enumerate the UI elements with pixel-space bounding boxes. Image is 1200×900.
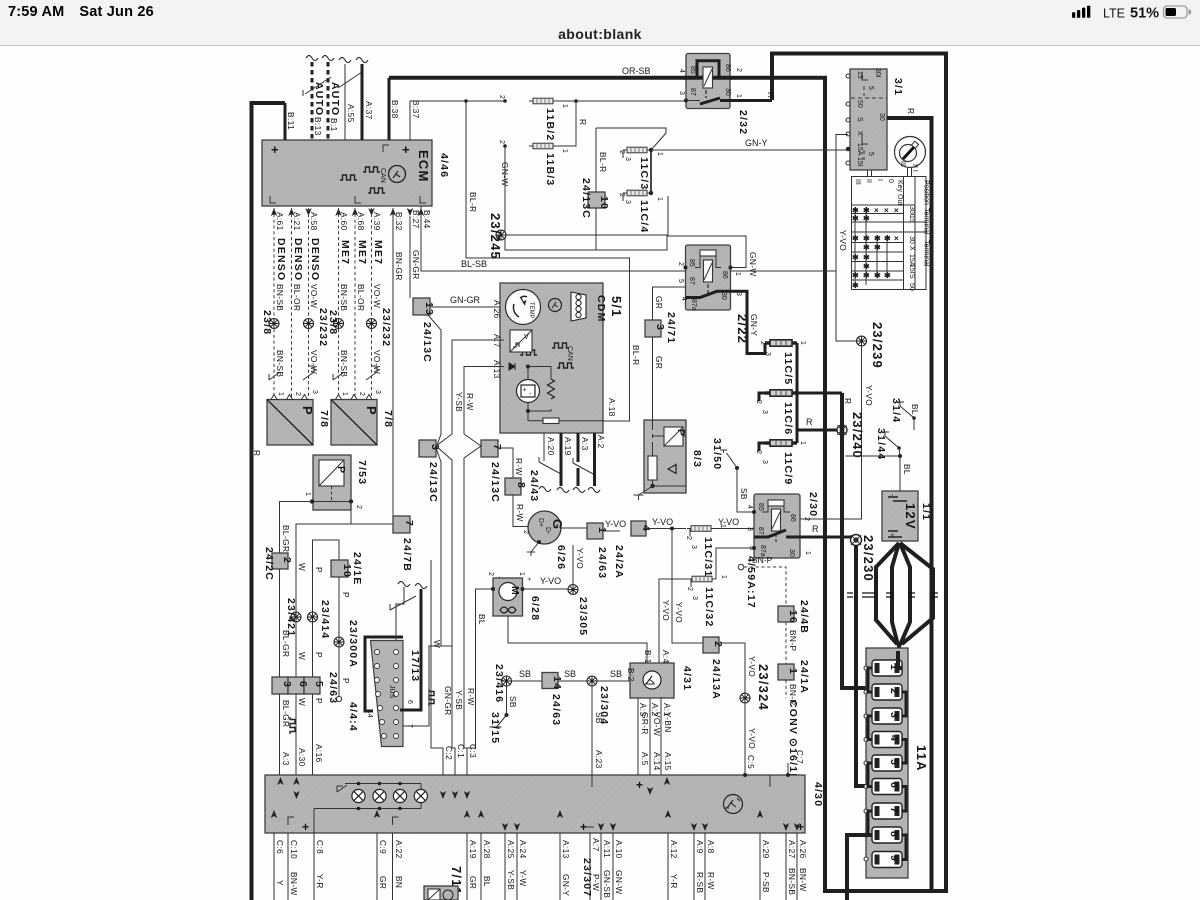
switch 31/44: [875, 418, 914, 460]
svg-text:B:13: B:13: [313, 117, 323, 136]
wire A:37 bold: [356, 58, 374, 141]
svg-text:50: 50: [856, 100, 863, 108]
svg-text:BN-W: BN-W: [289, 872, 299, 896]
connector 24/2A pin 4: [613, 517, 739, 579]
wire A:13 R-W: [464, 367, 504, 435]
svg-text:GR-R: GR-R: [640, 712, 650, 735]
wire BL-GR 7/53 pin1 to 24/2C: [280, 502, 313, 554]
svg-text:ECM: ECM: [416, 150, 431, 183]
splice 23/304: [587, 669, 630, 775]
svg-text:A:19: A:19: [468, 840, 478, 859]
svg-text:GN-W: GN-W: [614, 870, 624, 895]
svg-text:30I: 30I: [874, 68, 881, 78]
svg-text:5: 5: [867, 152, 874, 156]
svg-text:24/13C: 24/13C: [427, 462, 439, 503]
svg-text:86: 86: [721, 271, 728, 279]
connector 24/2C pin 2: [263, 547, 293, 581]
fuse 11C/3: [618, 147, 663, 190]
svg-text:Y-SB: Y-SB: [454, 392, 464, 412]
internal wiring of 5/1: [528, 367, 551, 422]
svg-text:3: 3: [690, 545, 697, 549]
CDM icon in 5/1: [571, 292, 586, 321]
fuse 11C/6 bold: [755, 390, 806, 436]
svg-text:CAN: CAN: [566, 346, 573, 361]
harness connector ticks: [847, 593, 938, 597]
svg-text:6/28: 6/28: [529, 596, 541, 621]
svg-text:Y-VO: Y-VO: [838, 230, 848, 251]
svg-text:BL-R: BL-R: [468, 192, 478, 213]
svg-text:A:7: A:7: [591, 838, 601, 852]
svg-text:A:16: A:16: [314, 744, 324, 763]
wire BL battery to switches: [845, 404, 920, 491]
fuel gauge sender 4/31: [626, 650, 693, 717]
svg-text:S: S: [856, 117, 863, 122]
svg-text:11C/4: 11C/4: [638, 200, 650, 233]
svg-text:A:25: A:25: [506, 840, 516, 859]
ground 23/239: [857, 322, 886, 369]
battery telltale in 5/1: [517, 380, 540, 403]
svg-text:G: G: [550, 519, 565, 530]
wire frame right inner bold from ignition 30: [887, 118, 932, 893]
svg-text:B:37: B:37: [411, 100, 421, 119]
svg-text:A:58: A:58: [309, 212, 319, 231]
svg-text:+: +: [525, 577, 532, 581]
wire Y-SB down to panel C:1: [452, 640, 464, 775]
ECM control module 4/46: [262, 140, 450, 206]
svg-text:BL-R: BL-R: [598, 152, 608, 173]
wire B:38 bold from OR-SB: [388, 78, 391, 140]
svg-text:3: 3: [678, 91, 685, 95]
battery icon: [1164, 6, 1192, 18]
svg-text:23/8: 23/8: [261, 310, 273, 335]
svg-text:2: 2: [618, 193, 625, 197]
svg-text:SB: SB: [519, 669, 531, 679]
svg-text:B:1: B:1: [643, 650, 653, 664]
svg-text:4/4:4: 4/4:4: [347, 702, 359, 732]
connector 24/13C pin 13: [413, 298, 435, 363]
svg-text:50: 50: [908, 283, 915, 291]
svg-text:23/300A: 23/300A: [347, 620, 359, 668]
svg-text:W: W: [297, 698, 307, 706]
wire ignition 30 bold: [887, 116, 932, 120]
wire B:32 BN-GR: [393, 208, 404, 517]
svg-text:3: 3: [691, 596, 698, 600]
svg-text:24/13A: 24/13A: [710, 659, 722, 700]
svg-text:C:5: C:5: [746, 755, 756, 769]
svg-text:2: 2: [498, 95, 505, 99]
svg-text:Y-VO: Y-VO: [747, 656, 757, 677]
svg-text:12V: 12V: [903, 503, 918, 530]
relay 2/22: [677, 245, 750, 344]
svg-text:7: 7: [403, 520, 415, 527]
svg-text:24/63: 24/63: [550, 694, 562, 726]
svg-text:24/13C: 24/13C: [489, 462, 501, 503]
svg-text:R-W: R-W: [466, 688, 476, 706]
svg-text:A:13: A:13: [492, 360, 502, 379]
pin hooks on ECM: [270, 145, 426, 203]
connector 24/13C pin 7: [464, 434, 503, 640]
svg-text:23/416: 23/416: [493, 664, 505, 703]
svg-text:86: 86: [724, 64, 731, 72]
svg-text:BL-OR: BL-OR: [356, 284, 366, 311]
wire bold chain of 11C fuses: [796, 343, 799, 443]
svg-text:3: 3: [624, 157, 631, 161]
svg-text:P: P: [314, 567, 324, 573]
wire Y-VO row from 24/63 pin 1: [560, 519, 626, 579]
schematic outer frame: [252, 54, 947, 900]
wire ME7 A:68: [355, 208, 368, 398]
svg-text:ME7: ME7: [356, 240, 368, 265]
svg-text:0: 0: [887, 179, 894, 183]
svg-text:11C/31: 11C/31: [702, 537, 714, 577]
fuse 11B/3: [498, 140, 568, 186]
svg-text:30: 30: [878, 113, 885, 121]
svg-text:GN-GR: GN-GR: [450, 295, 480, 305]
wire B:11 bold to ECM: [284, 103, 287, 140]
ground 23/230 bold: [851, 535, 877, 582]
svg-text:1: 1: [656, 152, 663, 156]
instrument module 7/11: [424, 866, 464, 900]
svg-text:GN-Y: GN-Y: [745, 138, 768, 148]
svg-text:2: 2: [487, 572, 494, 576]
svg-text:A:20: A:20: [546, 437, 556, 456]
svg-text:A:22: A:22: [394, 840, 404, 859]
fuse 11C/5 bold: [759, 340, 806, 386]
svg-text:SB: SB: [564, 669, 576, 679]
wires 4/31 bottom to panel: [638, 698, 673, 775]
svg-text:A:27: A:27: [787, 840, 797, 859]
svg-text:A:9: A:9: [695, 840, 705, 854]
svg-text:A:26: A:26: [492, 300, 502, 319]
svg-text:23/414: 23/414: [319, 600, 331, 639]
svg-text:3: 3: [654, 324, 666, 331]
svg-text:11C/5: 11C/5: [782, 352, 794, 385]
data link connector 17/13: [366, 641, 421, 747]
connector 24/13A pin 2: [703, 637, 757, 700]
battery 1/1: [882, 491, 932, 541]
svg-text:2: 2: [281, 557, 293, 564]
ground 23/245: [488, 213, 506, 260]
svg-text:GN-GR: GN-GR: [411, 250, 421, 280]
svg-text:BN-W: BN-W: [798, 868, 808, 892]
svg-text:W: W: [297, 563, 307, 571]
wire GN-GR connector 13 to 5/1 A:26: [430, 306, 504, 308]
wire R-W down to panel C:3: [464, 640, 476, 775]
svg-text:30: 30: [724, 88, 731, 96]
wire A:4 Y-VO up to 11C/32: [659, 579, 688, 663]
svg-text:1: 1: [341, 392, 348, 396]
wire A:3 bold with switch: [573, 433, 595, 493]
svg-text:BL-GR: BL-GR: [281, 525, 291, 552]
svg-text:1: 1: [720, 575, 727, 579]
svg-text:SB: SB: [739, 488, 749, 500]
svg-text:85: 85: [688, 259, 695, 267]
svg-text:6/26: 6/26: [555, 545, 567, 570]
wires below 4/30 right group: [560, 833, 808, 900]
oxygen sensor 7/8 rear: [331, 395, 394, 446]
svg-text:+: +: [580, 820, 587, 834]
svg-text:A:39: A:39: [372, 212, 382, 231]
signal bars icon: [1072, 6, 1090, 18]
svg-text:23/307: 23/307: [581, 858, 593, 897]
svg-text:A:30: A:30: [297, 748, 307, 767]
svg-text:31/50: 31/50: [711, 438, 723, 470]
splice 23/421: [285, 598, 307, 677]
ignition position table: [852, 168, 930, 291]
svg-text:B:11: B:11: [286, 112, 296, 130]
wire AUTO B:1 dashed bold: [322, 56, 341, 141]
clock icon in 4/30: [724, 795, 743, 814]
svg-text:A:3: A:3: [580, 437, 590, 451]
svg-text:3: 3: [761, 410, 768, 414]
wire OR-SB bold horizontal B:38 feed: [389, 78, 825, 891]
svg-text:VO-W: VO-W: [309, 284, 319, 308]
wire DENSO A:58: [303, 208, 329, 398]
svg-text:A:7: A:7: [492, 334, 502, 348]
svg-text:II I: II I: [911, 164, 918, 172]
svg-text:R-W: R-W: [514, 458, 524, 476]
fuses 1-9 of 11A: [864, 660, 902, 868]
svg-text:2: 2: [294, 392, 301, 396]
svg-text:SB: SB: [508, 696, 518, 708]
svg-text:23/240: 23/240: [850, 412, 865, 459]
svg-text:4/30: 4/30: [812, 782, 824, 807]
svg-text:2/32: 2/32: [737, 110, 749, 135]
svg-text:Y-VO: Y-VO: [864, 385, 874, 406]
svg-text:BL-SB: BL-SB: [461, 259, 487, 269]
svg-text:24/1A: 24/1A: [798, 660, 810, 694]
relay 2/30: [746, 492, 819, 558]
svg-text:2: 2: [803, 517, 810, 521]
svg-text:A:19: A:19: [563, 437, 573, 456]
wire bold loop around 17/13: [365, 637, 403, 711]
svg-text:1: 1: [719, 524, 726, 528]
svg-text:BL-R: BL-R: [631, 345, 641, 366]
svg-text:×: ×: [874, 206, 879, 215]
svg-text:3: 3: [746, 527, 753, 531]
svg-text:2: 2: [755, 450, 762, 454]
svg-text:×: ×: [884, 206, 889, 215]
svg-text:8: 8: [888, 831, 900, 838]
svg-text:A:2: A:2: [596, 435, 606, 449]
svg-text:CAN: CAN: [379, 168, 386, 183]
svg-text:2: 2: [618, 150, 625, 154]
svg-text:P: P: [341, 678, 351, 684]
svg-text:8: 8: [515, 482, 527, 489]
svg-text:1: 1: [799, 441, 806, 445]
camshaft sensor 7/53: [304, 455, 368, 510]
svg-text:R-W: R-W: [706, 872, 716, 890]
svg-text:VO-W: VO-W: [372, 284, 382, 308]
fuse inside 5/1: [543, 418, 559, 424]
svg-text:C:8: C:8: [315, 840, 325, 854]
svg-text:Y-SB: Y-SB: [454, 690, 464, 710]
svg-text:D+: D+: [537, 518, 544, 527]
svg-text:BL: BL: [477, 614, 487, 625]
svg-text:+: +: [888, 533, 895, 537]
ground 23/240 bold: [837, 412, 865, 459]
4/30 bottom pin arrows: [271, 810, 800, 831]
wire DENSO A:21: [292, 208, 305, 398]
oxygen sensor 7/8 front: [267, 395, 330, 446]
CAN waveforms in 5/1: [520, 350, 537, 355]
key symbol of ignition: [895, 137, 926, 172]
svg-text:A:61: A:61: [275, 212, 285, 231]
connector 24/4B pin 16: [778, 600, 810, 664]
svg-text:R-SB: R-SB: [695, 872, 705, 893]
svg-text:C:1: C:1: [456, 744, 466, 758]
connector row 24/63 pins 3 6 5: [272, 672, 339, 704]
wire A:7 Y-SB: [452, 340, 504, 434]
svg-text:P: P: [341, 592, 351, 598]
svg-text:R: R: [812, 524, 819, 534]
svg-text:GN-Y: GN-Y: [561, 874, 571, 896]
ground 23/416: [493, 664, 542, 703]
svg-text:III: III: [899, 161, 906, 167]
fuse 11C/9 bold: [755, 440, 806, 486]
svg-text:15I: 15I: [908, 264, 915, 274]
connector 24/71 pin 3: [645, 312, 677, 344]
svg-text:BL: BL: [910, 404, 920, 415]
svg-text:ME7: ME7: [372, 240, 384, 265]
svg-text:3: 3: [764, 352, 771, 356]
svg-text:BL: BL: [902, 464, 912, 475]
svg-text:3: 3: [761, 460, 768, 464]
svg-text:A:26: A:26: [798, 840, 808, 859]
svg-text:4: 4: [746, 505, 753, 509]
svg-text:1: 1: [734, 272, 741, 276]
combined instrument panel 4/30: [265, 775, 824, 834]
svg-text:A:5: A:5: [640, 752, 650, 766]
svg-text:3: 3: [624, 200, 631, 204]
svg-text:R-W: R-W: [465, 393, 475, 411]
wire A:2 bold: [588, 433, 606, 493]
svg-text:R-W: R-W: [515, 504, 525, 522]
junction BL-R tap: [464, 99, 468, 103]
relay 2/22 switch bold: [686, 291, 731, 297]
svg-text:Terminal: Terminal: [923, 208, 930, 235]
svg-text:Y-BN: Y-BN: [663, 712, 673, 733]
svg-text:23/239: 23/239: [870, 322, 885, 369]
svg-text:C:7: C:7: [795, 750, 805, 764]
svg-text:A:24: A:24: [518, 840, 528, 859]
svg-text:GR: GR: [378, 876, 388, 889]
wire B:37 to fuse 11B/2: [410, 101, 505, 140]
svg-text:+: +: [302, 820, 309, 834]
wire GN-Y fuse 11C/3 to ignition 15A: [651, 149, 848, 151]
svg-text:W: W: [297, 652, 307, 660]
svg-text:DENSO: DENSO: [275, 238, 287, 281]
svg-text:30: 30: [788, 549, 795, 557]
wire DENSO A:61 lambda chain: [261, 208, 287, 398]
svg-text:R: R: [906, 108, 916, 114]
svg-text:A:13: A:13: [561, 840, 571, 859]
wire GN-W from fuse 11B/3 down: [505, 146, 746, 268]
wire ground 23/245 to fuse 11C/4: [506, 196, 668, 235]
wire frame left bold R: [252, 103, 286, 900]
svg-text:SB: SB: [610, 669, 622, 679]
svg-text:3: 3: [374, 390, 381, 394]
svg-text:11C/32: 11C/32: [703, 587, 715, 627]
fuse 11B/2: [498, 95, 568, 141]
svg-text:24/4B: 24/4B: [798, 600, 810, 634]
svg-text:6: 6: [297, 681, 309, 688]
svg-text:2/30: 2/30: [807, 492, 819, 517]
svg-text:CDM: CDM: [595, 295, 607, 323]
svg-text:×: ×: [894, 234, 899, 243]
connector 24/1A pin 1: [778, 660, 810, 793]
table contact stars: [852, 206, 899, 290]
wire GN-GR down: [441, 517, 453, 716]
svg-text:87: 87: [688, 277, 695, 285]
op-icon K circle in ECM: [389, 166, 406, 183]
svg-text:10: 10: [598, 196, 610, 210]
voltage symbol square in 5/1: [510, 330, 532, 352]
svg-text:R: R: [578, 119, 588, 125]
svg-text:13: 13: [423, 302, 435, 316]
svg-text:9: 9: [888, 855, 900, 862]
svg-text:R: R: [843, 398, 853, 404]
wire frame top bold: [772, 54, 946, 894]
wire ME7 A:39: [366, 208, 392, 398]
svg-text:Y-VO: Y-VO: [575, 548, 585, 569]
wire bold from 17/13 pin 6 up: [390, 582, 427, 711]
fuel pump unit 8/3: [634, 420, 704, 500]
svg-text:+: +: [636, 778, 643, 792]
svg-text:R: R: [252, 450, 262, 456]
wire A:19 bold: [557, 433, 573, 493]
svg-text:1: 1: [799, 341, 806, 345]
wire 7/53 pin2 to 24/7B: [296, 502, 351, 618]
ground 23/324: [740, 664, 771, 775]
svg-text:3/1: 3/1: [892, 78, 904, 96]
svg-text:2: 2: [759, 341, 766, 345]
svg-text:BL: BL: [482, 876, 492, 887]
wire P to panel A:16: [312, 694, 314, 775]
svg-text:2: 2: [358, 392, 365, 396]
svg-text:B:1: B:1: [329, 118, 339, 132]
wire from 17/13 pin 7: [403, 646, 452, 726]
svg-text:A:55: A:55: [346, 104, 356, 123]
svg-text:11A: 11A: [914, 745, 929, 772]
svg-text:6: 6: [888, 782, 900, 789]
svg-text:5: 5: [313, 681, 325, 688]
svg-text:Key Out: Key Out: [896, 180, 903, 205]
svg-text:BN-SB: BN-SB: [339, 350, 349, 377]
svg-text:+: +: [523, 387, 527, 394]
svg-text:A:3: A:3: [281, 752, 291, 766]
svg-text:7/53: 7/53: [356, 460, 368, 485]
svg-text:30: 30: [908, 236, 915, 244]
svg-text:24/2C: 24/2C: [263, 547, 275, 581]
wire Y-VO below ground 23/239 to relay 2/30 pin 86: [800, 346, 862, 519]
svg-text:P: P: [300, 406, 315, 416]
svg-text:P: P: [314, 652, 324, 658]
svg-text:7/8: 7/8: [318, 410, 330, 428]
svg-text:A:4: A:4: [661, 650, 671, 664]
svg-text:3: 3: [311, 390, 318, 394]
svg-text:2: 2: [712, 641, 724, 648]
svg-text:30: 30: [720, 292, 727, 300]
svg-text:23/8: 23/8: [327, 310, 339, 335]
svg-text:GR: GR: [468, 876, 478, 889]
svg-text:5: 5: [677, 279, 684, 283]
wire bold fuse chain in 11A: [847, 651, 906, 900]
svg-text:23/324: 23/324: [756, 664, 771, 711]
svg-text:B:38: B:38: [390, 100, 400, 119]
wire C:2 C:1 C:3 labels: [444, 744, 478, 760]
wire Y-VO from 6/28 to splice 23/305: [523, 588, 574, 590]
